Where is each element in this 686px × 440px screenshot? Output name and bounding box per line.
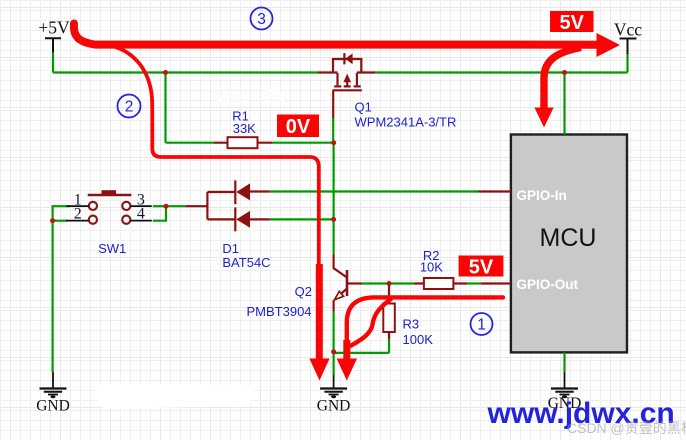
svg-text:GPIO-Out: GPIO-Out [517,277,579,292]
junction dot SW1 right [164,204,169,209]
wire SW1 pin4 tie [153,206,166,221]
pin GPIO-Out (dark red) [481,282,511,284]
red label box 0V [277,115,319,138]
wire SW1 pin3 to D1 [153,205,186,207]
circled number 1 [471,313,493,335]
svg-text:PMBT3904: PMBT3904 [247,304,312,319]
svg-text:Q2: Q2 [295,284,312,299]
ground symbol left [40,372,67,395]
D1 bottom diode triangle [236,211,250,228]
ground symbol center [320,375,347,395]
svg-text:WPM2341A-3/TR: WPM2341A-3/TR [355,115,457,130]
circled number 3 [251,8,273,30]
svg-text:R3: R3 [403,317,420,332]
svg-text:GPIO-In: GPIO-In [517,188,567,203]
svg-text:MCU: MCU [540,224,597,252]
transistor Q1 pin leads on rail (dark red) [318,71,375,73]
wire stub SW1 pin2 to GND rail dot [53,220,67,222]
svg-text:5V: 5V [559,12,584,34]
red marker path 1 arrowhead [337,359,357,381]
red marker path 1 shaft [343,340,350,360]
resistor R1 leads [214,142,272,144]
transistor Q2 collector pin [334,255,347,278]
wire D1 bottom anode to node A [270,218,334,220]
svg-text:SW1: SW1 [98,241,126,256]
svg-text:GND: GND [36,398,70,415]
wire center GND drop [333,353,335,375]
circled number 2 [118,95,141,118]
svg-text:D1: D1 [222,241,239,256]
wire SW1 pins1-2 to GND rail [53,206,70,372]
svg-text:0V: 0V [286,116,311,138]
svg-text:GND: GND [317,398,351,415]
ground symbol right (MCU) [551,373,578,395]
switch SW1 button bar [88,194,132,197]
svg-text:33K: 33K [233,121,256,136]
resistor R3 body [383,304,395,333]
Q1 body-diode arrow (filled) [345,53,352,64]
svg-text:10K: 10K [420,260,443,275]
wire R1 row left [166,142,215,144]
svg-text:Vgs = 5V: Vgs = 5V [213,87,289,107]
wire riser to MCU top [563,73,565,135]
transistor Q1 (P-MOSFET) body [333,53,362,118]
resistor R2 leads [414,282,467,284]
resistor R3 leads [388,286,390,340]
red marker path 2 arrowhead [309,359,329,381]
wire top rail right (green) [375,71,628,73]
wire +5V riser [52,53,54,73]
red marker arrowhead down at MCU top [534,108,553,128]
red marker path 3 branch down to MCU [544,48,581,111]
wire GPIO-In net (D1 top anode to MCU) [270,190,479,192]
wire riser node to R1 row [164,73,166,143]
wire Vcc riser [626,54,628,73]
power symbol Vcc [620,39,637,55]
red marker path 1 inner S through R3 [350,299,392,347]
junction dot top-left node [163,70,168,75]
resistor R1 body [228,137,258,148]
wire node A vertical down to Q2 collector [333,143,335,255]
D1 top diode triangle [236,183,250,200]
wire top rail left (green) [53,71,318,73]
svg-text:Q1: Q1 [355,100,372,115]
junction dot SW1 left GND rail [50,218,55,223]
diode D1 (BAT54C) frame [207,180,269,231]
wire Q2 base row to R2 [362,282,414,284]
svg-text:4: 4 [137,206,145,223]
red marker path 2 curve [110,45,319,268]
wire MCU bottom GND drop [563,352,565,372]
pin GPIO-In (dark red) [479,190,511,192]
wire Q1 gate to node A [332,118,334,143]
junction dot D1 bottom / node A [331,217,336,222]
transistor Q2 base bar [346,270,349,296]
svg-text:+5V: +5V [38,18,70,38]
svg-text:5V: 5V [469,257,494,279]
ghost erased white blob above left GND [97,383,253,409]
svg-text:100K: 100K [403,332,434,347]
power symbol +5V [45,38,61,53]
svg-text:Vcc: Vcc [614,20,642,40]
junction dot R3 top [387,281,392,286]
red marker path 3 (main 5V band) [74,24,597,45]
junction dot emitter/GND node [331,349,336,354]
svg-text:2: 2 [125,99,134,116]
wire emitter node to R3 bottom [334,352,389,354]
wire R3 bottom lead green part [388,339,390,353]
resistor R2 body [424,278,454,289]
wire Q2 emitter down [333,312,335,353]
MCU block U? [511,135,627,353]
SW1 pin lines (black) [66,206,152,221]
wire R1 row right [272,142,333,144]
diode D1 input lead from SW1 [186,205,208,207]
junction dot top-right node [562,70,567,75]
red label box 5V at R2 [459,256,504,277]
transistor Q2 base pin [347,282,362,284]
switch SW1 contacts [89,202,131,224]
red marker path 2 shaft [316,264,323,360]
junction dot node A (R1 right) [331,140,336,145]
wire R2 to GPIO-Out [467,282,481,284]
red label box 5V top [550,11,594,32]
red marker path 1 (GPIO-Out) [347,297,503,344]
svg-text:1: 1 [477,317,486,334]
svg-text:2: 2 [74,206,82,223]
transistor Q2 emitter with open arrow [334,289,347,312]
red marker path 3 arrowhead right [597,33,621,57]
Q1 channel arrow (filled, pointing up) [343,74,351,83]
svg-text:BAT54C: BAT54C [222,255,270,270]
svg-text:CSDN @贵壹的黑枓: CSDN @贵壹的黑枓 [567,420,686,436]
svg-text:3: 3 [257,11,266,28]
